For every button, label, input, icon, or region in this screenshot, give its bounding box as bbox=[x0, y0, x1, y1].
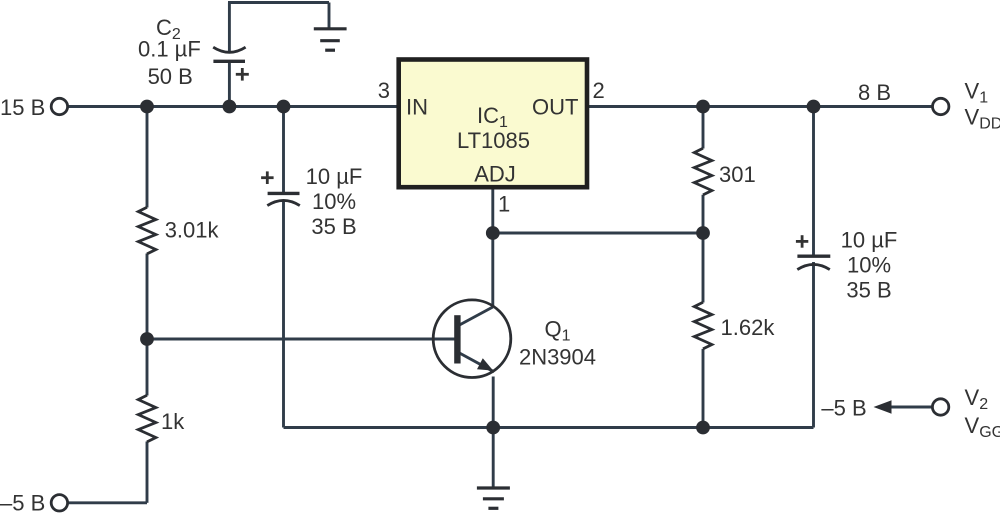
svg-text:50 B: 50 B bbox=[148, 64, 193, 89]
svg-text:10 µF: 10 µF bbox=[841, 227, 898, 252]
svg-text:10%: 10% bbox=[312, 189, 356, 214]
svg-text:IN: IN bbox=[406, 95, 428, 120]
svg-text:8 B: 8 B bbox=[858, 80, 891, 105]
svg-text:1k: 1k bbox=[161, 409, 185, 434]
svg-text:2N3904: 2N3904 bbox=[519, 345, 596, 370]
svg-text:301: 301 bbox=[719, 162, 756, 187]
svg-text:LT1085: LT1085 bbox=[457, 128, 530, 153]
svg-text:OUT: OUT bbox=[532, 95, 578, 120]
svg-text:–5 B: –5 B bbox=[821, 395, 866, 420]
svg-text:35 B: 35 B bbox=[311, 214, 356, 239]
svg-text:0.1 µF: 0.1 µF bbox=[138, 37, 201, 62]
svg-text:10%: 10% bbox=[847, 252, 891, 277]
svg-text:ADJ: ADJ bbox=[474, 161, 516, 186]
svg-text:–5 B: –5 B bbox=[0, 490, 45, 513]
svg-text:1.62k: 1.62k bbox=[721, 315, 776, 340]
svg-text:3.01k: 3.01k bbox=[165, 217, 220, 242]
svg-text:3: 3 bbox=[378, 78, 390, 103]
svg-text:35 B: 35 B bbox=[846, 277, 891, 302]
svg-text:10 µF: 10 µF bbox=[306, 164, 363, 189]
svg-text:2: 2 bbox=[593, 78, 605, 103]
svg-text:1: 1 bbox=[498, 192, 510, 217]
svg-text:15 B: 15 B bbox=[0, 95, 45, 120]
